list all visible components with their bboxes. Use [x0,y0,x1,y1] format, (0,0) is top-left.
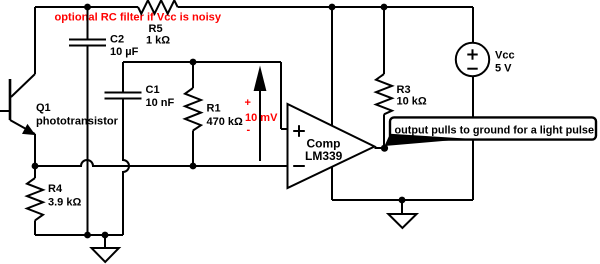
svg-text:C1: C1 [146,84,160,96]
svg-text:R1: R1 [207,103,221,115]
svg-text:-: - [247,124,251,136]
svg-text:10 kΩ: 10 kΩ [397,96,427,108]
svg-text:1 kΩ: 1 kΩ [146,35,170,47]
svg-text:phototransistor: phototransistor [36,116,119,128]
svg-text:R4: R4 [48,183,63,195]
svg-text:470 kΩ: 470 kΩ [207,116,244,128]
svg-text:optional RC filter if Vcc is n: optional RC filter if Vcc is noisy [55,12,222,24]
svg-text:LM339: LM339 [305,149,343,163]
svg-text:R5: R5 [149,23,163,35]
svg-text:10 µF: 10 µF [110,46,139,58]
svg-text:+: + [245,97,251,109]
svg-text:3.9 kΩ: 3.9 kΩ [48,197,81,209]
svg-text:output pulls to ground for a l: output pulls to ground for a light pulse [395,125,595,137]
svg-text:Vcc: Vcc [495,50,515,62]
svg-text:Q1: Q1 [36,102,51,114]
svg-text:C2: C2 [110,34,124,46]
svg-text:5 V: 5 V [495,63,512,75]
svg-text:10 mV: 10 mV [245,112,278,124]
svg-text:10 nF: 10 nF [146,97,175,109]
svg-text:R3: R3 [397,84,411,96]
